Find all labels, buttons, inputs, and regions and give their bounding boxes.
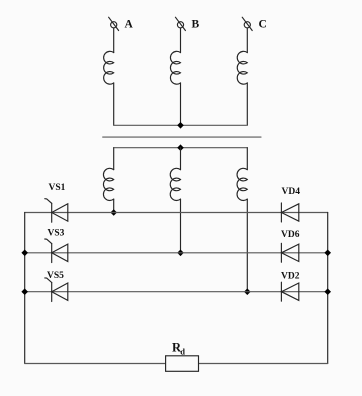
node a (phase a junction on row 1) [110, 209, 117, 216]
wire: secondary b down to row 2 [180, 199, 182, 253]
node: primary star point junction [177, 122, 184, 129]
wire: secondary a to row 1 [113, 199, 115, 212]
wire: terminal B to primary winding [180, 28, 182, 53]
wire: left bus vertical [24, 213, 26, 364]
wire: secondary bus to winding b [180, 148, 182, 170]
thyristor VS3 [45, 239, 68, 263]
wire: terminal A to primary winding [113, 28, 115, 53]
wire: right bus vertical [327, 213, 329, 364]
secondary winding phase b [170, 168, 180, 200]
wire: secondary star-point bus [114, 147, 248, 149]
node: secondary star point junction [177, 144, 184, 151]
node: left bus row 3 junction [21, 288, 28, 295]
svg-text:d: d [180, 346, 185, 356]
wire: primary A to star point bus [113, 83, 115, 125]
svg-text:VS1: VS1 [49, 183, 66, 193]
wire: row 3 horizontal [25, 291, 328, 293]
diode VD4 [281, 203, 298, 222]
node: right bus row 3 junction [324, 288, 331, 295]
wire: primary C to star point bus [246, 83, 248, 125]
wire: row 1 horizontal [25, 212, 328, 214]
svg-text:VD6: VD6 [281, 230, 300, 240]
node: left bus row 2 junction [21, 250, 28, 257]
svg-text:VS3: VS3 [48, 229, 65, 239]
wire: primary B to star point bus [180, 83, 182, 125]
diode VD6 [281, 243, 298, 262]
svg-text:A: A [125, 19, 134, 31]
primary winding phase C [237, 51, 247, 84]
node: right bus row 2 junction [324, 250, 331, 257]
wire: secondary bus to winding c [246, 148, 248, 170]
wire: bottom right segment [199, 363, 328, 365]
wire: bottom left segment [25, 363, 166, 365]
thyristor VS1 [45, 199, 68, 223]
wire: secondary bus to winding a [113, 148, 115, 170]
primary winding phase B [170, 51, 180, 84]
diode VD2 [281, 282, 298, 301]
svg-text:VD4: VD4 [282, 187, 301, 197]
svg-text:C: C [259, 19, 267, 31]
wire: row 2 horizontal [25, 252, 328, 254]
primary winding phase A [104, 51, 114, 84]
node c (phase c junction on row 3) [244, 288, 251, 295]
wire: terminal C to primary winding [246, 28, 248, 53]
svg-text:VS5: VS5 [47, 271, 64, 281]
secondary winding phase a [103, 168, 113, 200]
svg-text:VD2: VD2 [281, 272, 300, 282]
terminal C (input circle with slash) [242, 17, 252, 30]
label Rd [172, 341, 185, 357]
wire: secondary c down to row 3 [246, 199, 248, 292]
node b (phase b junction on row 2) [177, 250, 184, 257]
svg-text:B: B [192, 19, 200, 31]
thyristor VS5 [45, 278, 68, 302]
transformer core line [103, 136, 261, 138]
resistor Rd (load) [166, 356, 199, 372]
wire: primary star-point bus [114, 124, 247, 126]
terminal B (input circle with slash) [175, 17, 185, 30]
secondary winding phase c [237, 168, 247, 200]
terminal A (input circle with slash) [109, 17, 119, 30]
